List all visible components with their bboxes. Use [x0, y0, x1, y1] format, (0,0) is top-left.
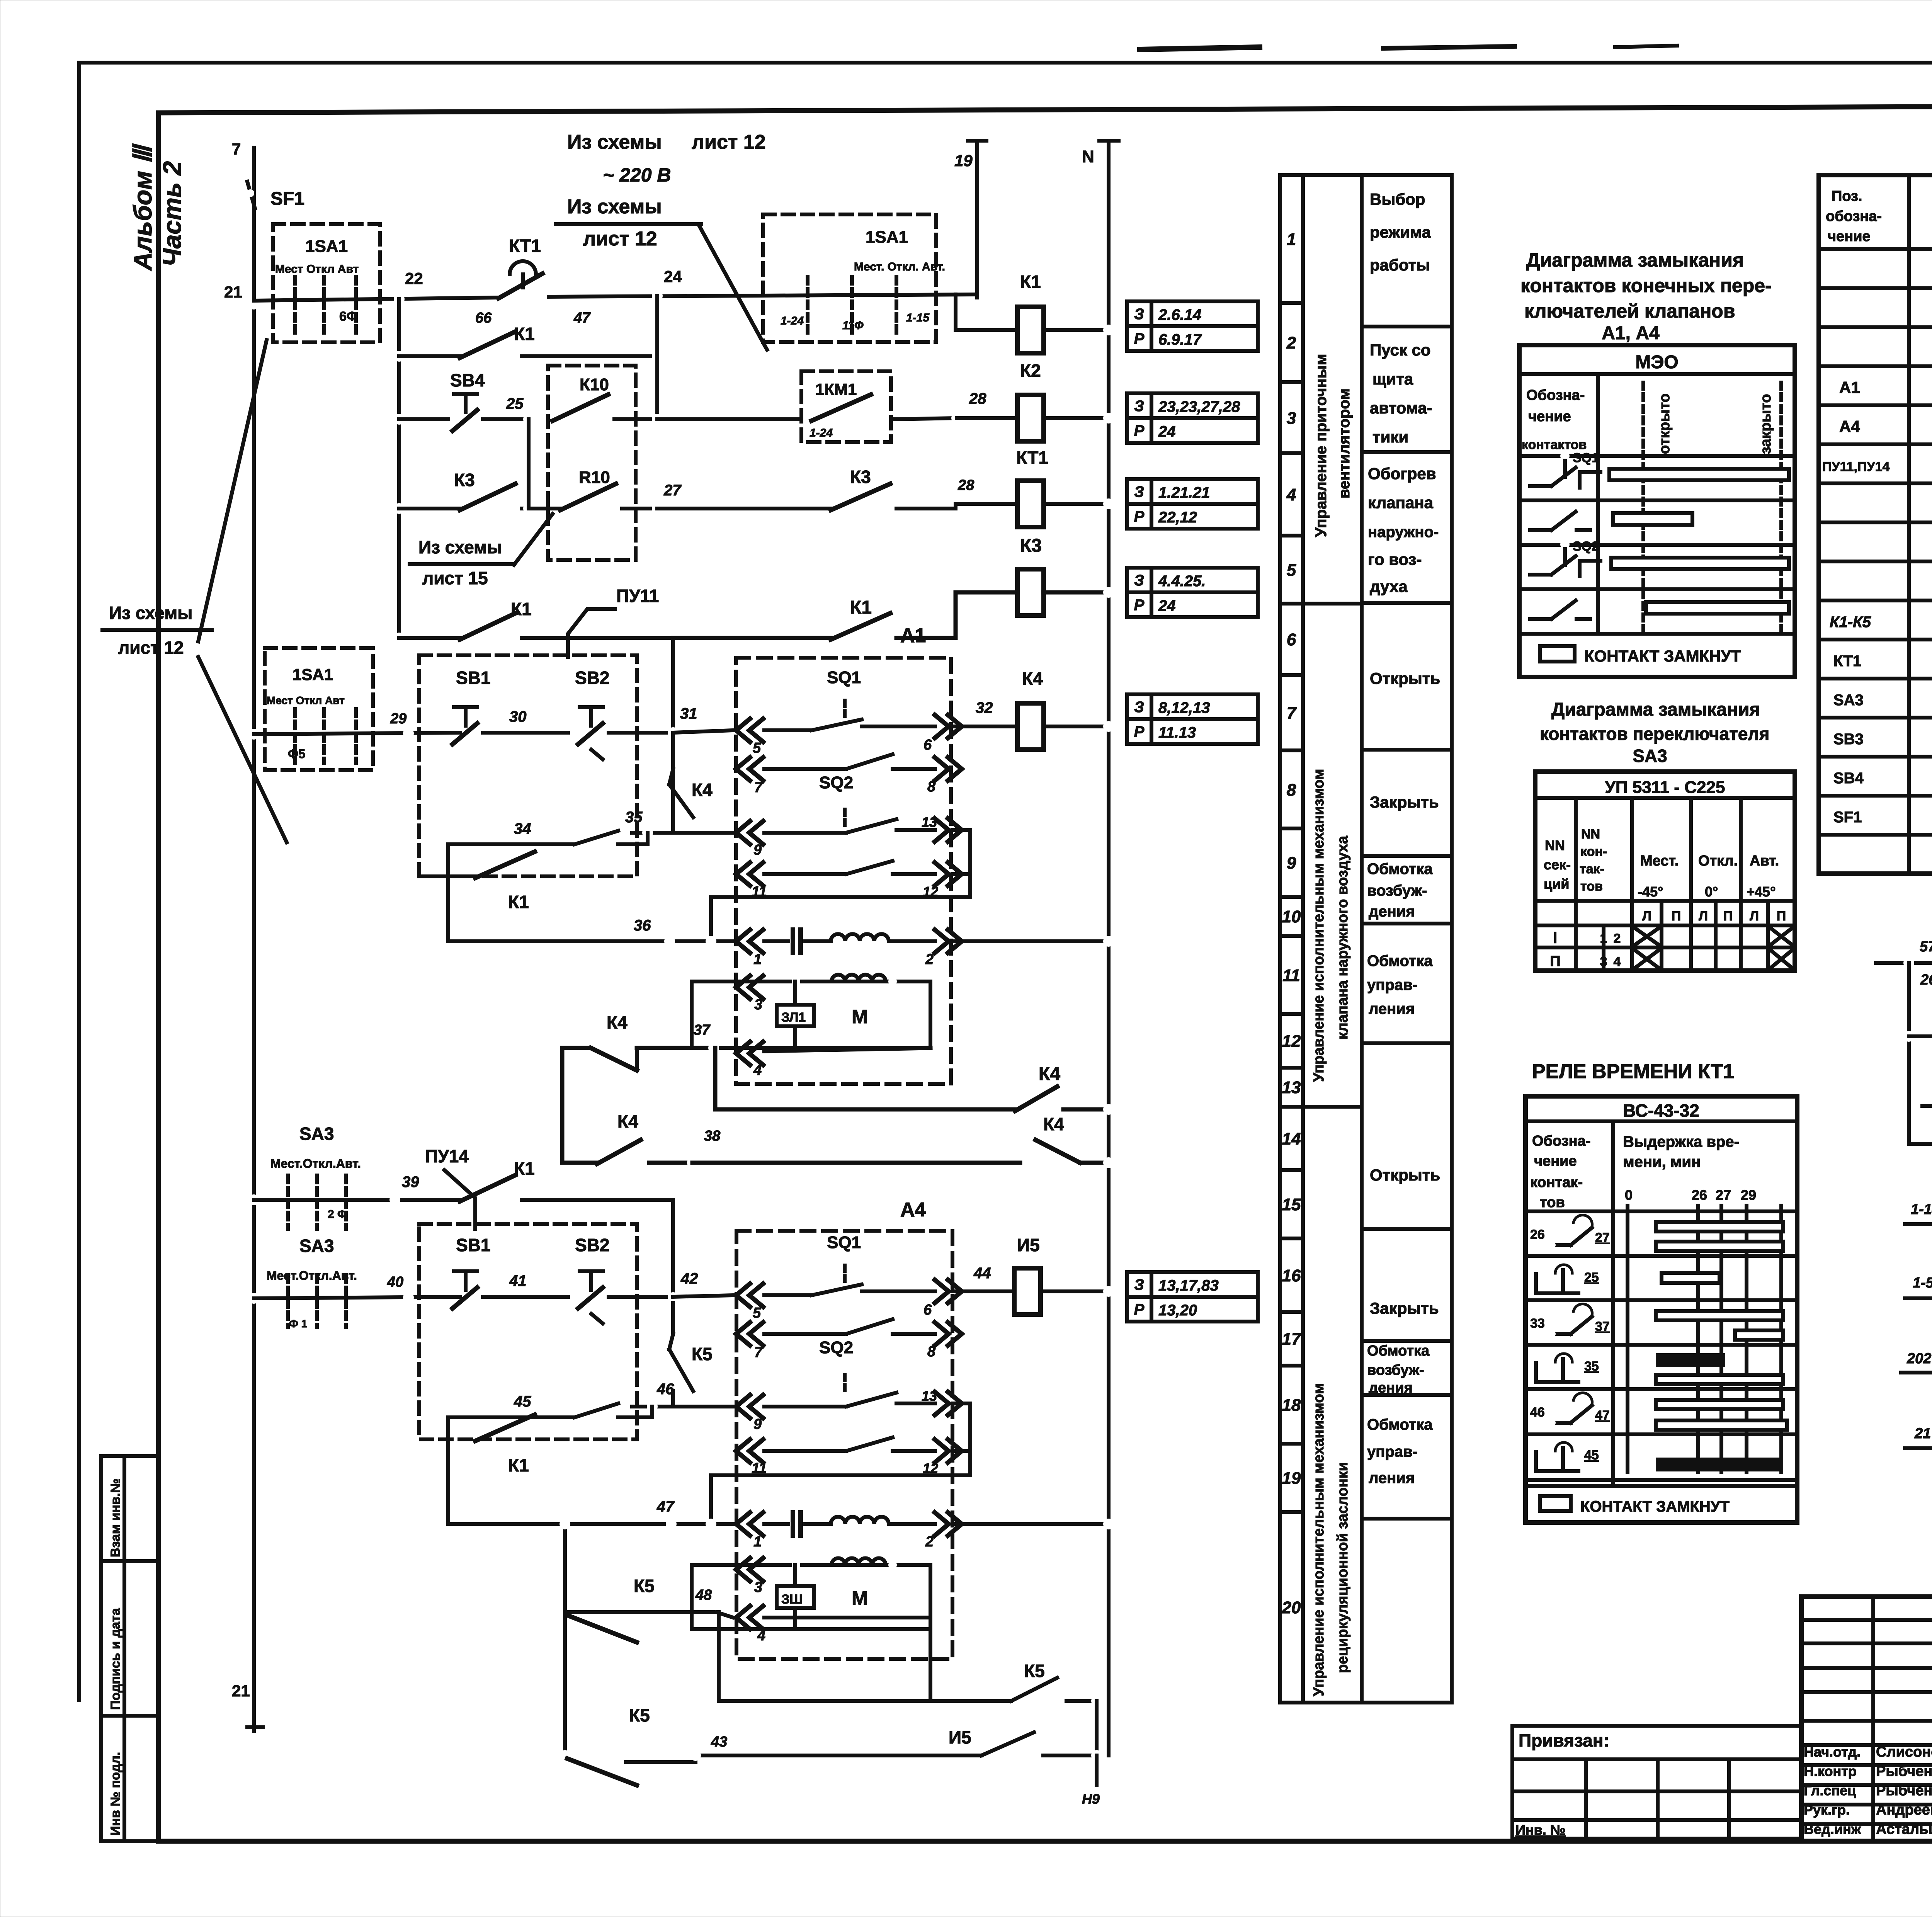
svg-text:1-24: 1-24 [781, 315, 804, 327]
svg-text:К5: К5 [692, 1344, 713, 1364]
svg-text:К2: К2 [1020, 361, 1041, 381]
svg-text:П: П [1723, 909, 1733, 924]
svg-text:25: 25 [506, 395, 524, 412]
svg-text:Подпись и дата: Подпись и дата [108, 1607, 123, 1710]
svg-text:дения: дения [1369, 1380, 1413, 1396]
svg-text:33: 33 [1530, 1316, 1545, 1331]
svg-text:З: З [1134, 1276, 1144, 1293]
svg-text:лист 15: лист 15 [422, 568, 488, 588]
svg-text:Альбом Ⅲ: Альбом Ⅲ [128, 143, 157, 271]
svg-text:ЗШ: ЗШ [781, 1592, 803, 1607]
svg-text:1-5: 1-5 [1913, 1275, 1932, 1291]
svg-text:З: З [1134, 398, 1144, 415]
svg-text:7: 7 [1287, 704, 1297, 723]
svg-text:Инв № подл.: Инв № подл. [108, 1752, 123, 1835]
svg-text:Откл.: Откл. [1698, 853, 1738, 869]
svg-text:SQ1: SQ1 [827, 1233, 861, 1252]
svg-text:тики: тики [1372, 428, 1408, 446]
svg-text:так-: так- [1580, 862, 1604, 876]
svg-text:SB4: SB4 [1833, 770, 1864, 787]
svg-text:Л: Л [1750, 909, 1759, 924]
svg-text:А4: А4 [1839, 417, 1860, 435]
svg-text:3: 3 [754, 997, 762, 1013]
svg-text:24: 24 [1158, 423, 1176, 440]
svg-text:Обмотка: Обмотка [1367, 1416, 1433, 1433]
svg-text:ления: ления [1369, 1470, 1415, 1487]
svg-text:ЗЛ1: ЗЛ1 [781, 1010, 806, 1025]
svg-text:13: 13 [922, 814, 937, 830]
svg-text:К10: К10 [580, 375, 609, 394]
svg-text:43: 43 [711, 1734, 727, 1750]
svg-text:11: 11 [1282, 966, 1300, 985]
svg-text:ПУ14: ПУ14 [425, 1146, 469, 1166]
svg-text:тов: тов [1540, 1194, 1565, 1211]
svg-text:SB1: SB1 [456, 668, 490, 688]
svg-text:К1: К1 [508, 1455, 529, 1475]
svg-text:Мест Откл Авт: Мест Откл Авт [275, 263, 359, 276]
svg-text:9: 9 [1287, 854, 1296, 873]
svg-text:31: 31 [680, 705, 697, 722]
svg-text:дения: дения [1369, 903, 1415, 920]
svg-text:SQ2: SQ2 [1573, 539, 1599, 554]
svg-text:К5: К5 [634, 1576, 655, 1596]
svg-text:6: 6 [923, 737, 932, 753]
svg-text:38: 38 [704, 1128, 721, 1144]
svg-text:К3: К3 [1020, 536, 1042, 556]
svg-text:контактов переключателя: контактов переключателя [1540, 724, 1769, 744]
svg-text:SQ2: SQ2 [819, 1338, 853, 1357]
svg-text:рециркуляционной заслонки: рециркуляционной заслонки [1335, 1462, 1351, 1673]
svg-text:1: 1 [1287, 230, 1296, 249]
svg-text:Управление исполнительным меха: Управление исполнительным механизмом [1311, 1383, 1327, 1696]
svg-text:18: 18 [1282, 1396, 1301, 1415]
svg-text:З: З [1134, 699, 1144, 716]
svg-text:Обмотка: Обмотка [1367, 1343, 1430, 1359]
svg-text:Астальцева: Астальцева [1876, 1821, 1932, 1837]
svg-text:202: 202 [1906, 1351, 1931, 1367]
svg-text:4: 4 [757, 1628, 765, 1644]
svg-text:6: 6 [923, 1302, 932, 1318]
svg-text:1КМ1: 1КМ1 [815, 380, 857, 398]
svg-text:47: 47 [573, 310, 591, 326]
svg-text:2: 2 [925, 1534, 934, 1550]
svg-text:сек-: сек- [1544, 857, 1571, 873]
svg-text:1-15: 1-15 [906, 311, 930, 324]
svg-text:SB1: SB1 [456, 1235, 490, 1255]
svg-text:SA3: SA3 [299, 1124, 334, 1144]
svg-text:Андреева: Андреева [1876, 1802, 1932, 1818]
svg-text:К4: К4 [617, 1111, 638, 1131]
svg-text:1SA1: 1SA1 [293, 665, 333, 684]
svg-text:Л: Л [1699, 909, 1708, 924]
svg-text:автома-: автома- [1370, 399, 1432, 417]
svg-text:Часть 2: Часть 2 [158, 161, 186, 267]
svg-text:8,12,13: 8,12,13 [1158, 699, 1210, 716]
svg-text:SQ1: SQ1 [827, 668, 861, 687]
svg-text:тов: тов [1580, 879, 1603, 894]
svg-text:45: 45 [514, 1393, 531, 1410]
svg-text:Взам инв.№: Взам инв.№ [108, 1478, 123, 1557]
svg-text:Из схемы: Из схемы [109, 603, 192, 623]
svg-text:К1: К1 [514, 1158, 535, 1179]
svg-text:работы: работы [1370, 256, 1430, 274]
svg-text:21: 21 [1914, 1425, 1931, 1442]
svg-text:Диаграмма замыкания: Диаграмма замыкания [1551, 699, 1760, 720]
svg-text:Н9: Н9 [1082, 1791, 1100, 1807]
svg-text:Ⅰ: Ⅰ [1553, 930, 1557, 946]
svg-text:2 Ф: 2 Ф [328, 1208, 347, 1221]
svg-text:7: 7 [754, 1344, 763, 1361]
svg-text:Обмотка: Обмотка [1367, 861, 1433, 878]
svg-text:13,20: 13,20 [1158, 1302, 1197, 1319]
svg-text:Л: Л [1642, 909, 1651, 924]
svg-text:П: П [1672, 909, 1681, 924]
svg-text:29: 29 [1741, 1187, 1756, 1203]
svg-text:NN: NN [1581, 827, 1600, 842]
svg-text:КОНТАКТ ЗАМКНУТ: КОНТАКТ ЗАМКНУТ [1584, 647, 1741, 665]
svg-text:контактов: контактов [1522, 437, 1587, 452]
svg-text:Закрыть: Закрыть [1370, 793, 1439, 811]
svg-text:наружно-: наружно- [1368, 524, 1439, 541]
svg-text:NN: NN [1545, 837, 1565, 853]
svg-text:А1, А4: А1, А4 [1602, 323, 1660, 344]
svg-text:Обмотка: Обмотка [1367, 953, 1433, 970]
svg-text:47: 47 [1595, 1408, 1610, 1423]
svg-text:контак-: контак- [1530, 1174, 1583, 1191]
svg-text:К1: К1 [514, 324, 535, 344]
svg-text:3: 3 [754, 1579, 762, 1596]
svg-text:К1: К1 [850, 597, 872, 618]
svg-text:6Ф: 6Ф [339, 309, 358, 324]
svg-text:6.9.17: 6.9.17 [1158, 331, 1202, 348]
svg-text:20: 20 [1282, 1598, 1301, 1617]
svg-text:28: 28 [957, 477, 975, 493]
svg-text:36: 36 [634, 917, 651, 934]
svg-text:З: З [1134, 483, 1144, 500]
svg-text:ления: ления [1369, 1000, 1415, 1017]
svg-text:ключателей клапанов: ключателей клапанов [1524, 300, 1735, 322]
svg-text:Закрыть: Закрыть [1370, 1299, 1439, 1317]
svg-text:Р: Р [1134, 508, 1145, 525]
svg-text:И5: И5 [1017, 1235, 1040, 1255]
svg-text:кон-: кон- [1580, 844, 1607, 859]
svg-text:1.21.21: 1.21.21 [1158, 484, 1210, 501]
svg-text:К4: К4 [1022, 668, 1043, 689]
svg-text:24: 24 [1158, 597, 1176, 614]
svg-text:8: 8 [927, 1344, 936, 1360]
svg-text:13,17,83: 13,17,83 [1158, 1277, 1219, 1294]
svg-text:17: 17 [1282, 1330, 1302, 1349]
svg-text:SF1: SF1 [270, 189, 304, 209]
svg-text:24: 24 [664, 267, 682, 286]
svg-text:14: 14 [1282, 1129, 1301, 1148]
svg-text:27: 27 [1716, 1187, 1731, 1203]
svg-text:4.4.25.: 4.4.25. [1158, 573, 1206, 590]
svg-text:клапана: клапана [1368, 493, 1434, 512]
svg-text:ПУ11,ПУ14: ПУ11,ПУ14 [1822, 459, 1889, 474]
svg-text:9: 9 [753, 842, 762, 858]
svg-text:1-14: 1-14 [1911, 1201, 1932, 1218]
svg-text:11Ф: 11Ф [842, 319, 864, 332]
svg-text:щита: щита [1372, 370, 1413, 388]
svg-text:1: 1 [753, 951, 762, 968]
svg-text:ВС-43-32: ВС-43-32 [1623, 1101, 1699, 1121]
svg-text:К5: К5 [629, 1705, 650, 1725]
svg-text:К4: К4 [1039, 1064, 1060, 1084]
svg-text:SA3: SA3 [1633, 746, 1667, 766]
svg-text:12: 12 [1282, 1032, 1301, 1051]
svg-text:34: 34 [514, 820, 531, 837]
svg-text:0°: 0° [1705, 884, 1718, 900]
svg-text:21: 21 [224, 283, 242, 301]
svg-text:26: 26 [1692, 1187, 1707, 1203]
svg-text:Мест.Откл.Авт.: Мест.Откл.Авт. [267, 1269, 357, 1283]
svg-text:К1: К1 [508, 892, 529, 912]
svg-text:11.13: 11.13 [1158, 724, 1196, 741]
svg-text:22: 22 [405, 269, 423, 287]
svg-text:3: 3 [1287, 409, 1296, 428]
svg-text:закрыто: закрыто [1758, 394, 1774, 454]
svg-text:режима: режима [1370, 223, 1431, 241]
svg-text:УП 5311 - С225: УП 5311 - С225 [1605, 778, 1725, 797]
svg-text:SB4: SB4 [450, 370, 485, 390]
svg-text:SQ2: SQ2 [819, 773, 853, 792]
svg-text:SB3: SB3 [1833, 731, 1864, 748]
svg-text:Пуск со: Пуск со [1370, 341, 1431, 359]
svg-text:27: 27 [663, 482, 682, 499]
svg-text:SB2: SB2 [575, 1235, 609, 1255]
svg-text:К1: К1 [1020, 272, 1041, 292]
svg-text:SA3: SA3 [1833, 692, 1864, 709]
svg-text:И5: И5 [949, 1727, 971, 1747]
svg-text:Привязан:: Привязан: [1519, 1730, 1609, 1750]
svg-text:45: 45 [1584, 1448, 1599, 1463]
svg-text:39: 39 [402, 1174, 419, 1191]
svg-text:Р: Р [1134, 330, 1145, 347]
svg-text:7: 7 [232, 140, 241, 158]
svg-text:КТ1: КТ1 [509, 236, 541, 256]
svg-text:SQ1: SQ1 [1573, 451, 1599, 465]
svg-text:Р: Р [1134, 597, 1145, 614]
svg-text:Мест.: Мест. [1640, 853, 1679, 869]
svg-text:К1: К1 [511, 599, 532, 619]
svg-text:26: 26 [1530, 1227, 1545, 1242]
svg-text:РЕЛЕ ВРЕМЕНИ КТ1: РЕЛЕ ВРЕМЕНИ КТ1 [1532, 1060, 1734, 1083]
svg-text:19: 19 [1282, 1469, 1301, 1488]
svg-text:Р: Р [1134, 422, 1145, 439]
svg-text:КОНТАКТ ЗАМКНУТ: КОНТАКТ ЗАМКНУТ [1580, 1498, 1730, 1515]
svg-text:Обозна-: Обозна- [1532, 1133, 1590, 1149]
svg-text:Из схемы: Из схемы [418, 537, 502, 557]
svg-text:К4: К4 [1043, 1114, 1064, 1134]
svg-text:МЭО: МЭО [1635, 352, 1678, 373]
svg-text:37: 37 [694, 1022, 711, 1038]
svg-text:23,23,27,28: 23,23,27,28 [1158, 398, 1240, 415]
svg-text:Гл.спец: Гл.спец [1804, 1783, 1856, 1798]
svg-text:М: М [852, 1006, 868, 1027]
svg-text:лист 12: лист 12 [583, 228, 657, 250]
svg-text:30: 30 [509, 708, 527, 725]
svg-text:21: 21 [232, 1682, 250, 1700]
svg-text:чение: чение [1828, 228, 1871, 245]
svg-text:R10: R10 [579, 468, 610, 487]
svg-text:Ф 1: Ф 1 [289, 1318, 307, 1330]
svg-text:19: 19 [954, 151, 973, 170]
svg-text:4: 4 [1286, 485, 1296, 504]
svg-text:Мест Откл Авт: Мест Откл Авт [267, 694, 345, 706]
svg-text:Ф5: Ф5 [288, 747, 305, 761]
svg-text:5: 5 [1287, 561, 1296, 580]
svg-text:открыто: открыто [1656, 393, 1673, 454]
svg-text:44: 44 [973, 1265, 991, 1282]
svg-text:чение: чение [1534, 1153, 1577, 1169]
svg-text:Вед.инж: Вед.инж [1804, 1821, 1861, 1837]
svg-text:К4: К4 [692, 780, 713, 800]
svg-text:П: П [1550, 953, 1560, 970]
svg-text:Поз.: Поз. [1832, 188, 1862, 204]
svg-text:32: 32 [976, 699, 993, 716]
svg-text:28: 28 [969, 390, 986, 407]
svg-text:П: П [1777, 909, 1786, 924]
svg-text:Рыбченко: Рыбченко [1876, 1763, 1932, 1779]
svg-text:Слисонов: Слисонов [1876, 1744, 1932, 1760]
svg-text:48: 48 [695, 1587, 712, 1603]
svg-text:4: 4 [753, 1062, 762, 1078]
svg-text:SA3: SA3 [299, 1236, 334, 1256]
svg-text:З: З [1134, 306, 1144, 323]
svg-text:Обогрев: Обогрев [1368, 464, 1436, 483]
svg-text:возбуж-: возбуж- [1367, 882, 1427, 899]
svg-text:13: 13 [922, 1388, 937, 1404]
svg-text:16: 16 [1282, 1266, 1301, 1285]
svg-text:47: 47 [656, 1498, 675, 1515]
svg-text:Управление приточным: Управление приточным [1313, 354, 1330, 537]
svg-text:Диаграмма замыкания: Диаграмма замыкания [1526, 249, 1744, 271]
svg-text:Р: Р [1134, 723, 1145, 740]
svg-text:Выдержка вре-: Выдержка вре- [1623, 1133, 1739, 1150]
svg-text:7: 7 [754, 779, 763, 796]
svg-text:4: 4 [1614, 954, 1621, 969]
svg-text:15: 15 [1282, 1195, 1301, 1214]
svg-text:мени, мин: мени, мин [1623, 1153, 1701, 1170]
svg-text:2: 2 [1286, 333, 1296, 352]
svg-text:Рук.гр.: Рук.гр. [1804, 1802, 1850, 1818]
svg-text:22,12: 22,12 [1158, 509, 1197, 526]
svg-text:Мест.Откл.Авт.: Мест.Откл.Авт. [270, 1157, 361, 1170]
svg-text:ций: ций [1544, 876, 1569, 892]
svg-text:клапана наружного воздуха: клапана наружного воздуха [1335, 835, 1351, 1039]
svg-text:42: 42 [680, 1270, 698, 1287]
svg-text:А1: А1 [900, 624, 926, 647]
svg-text:обозна-: обозна- [1826, 208, 1882, 225]
svg-text:5: 5 [753, 1305, 761, 1321]
svg-text:2.6.14: 2.6.14 [1158, 306, 1201, 323]
svg-text:1SA1: 1SA1 [866, 228, 908, 247]
svg-text:Из схемы: Из схемы [567, 131, 662, 153]
svg-text:27: 27 [1595, 1230, 1610, 1245]
svg-text:46: 46 [1530, 1405, 1545, 1420]
svg-text:Р: Р [1134, 1301, 1145, 1318]
svg-text:29: 29 [390, 711, 406, 727]
svg-text:8: 8 [1287, 781, 1296, 799]
svg-text:К3: К3 [850, 467, 871, 487]
svg-text:2: 2 [1614, 931, 1621, 946]
svg-text:КТ1: КТ1 [1833, 653, 1861, 670]
svg-text:М: М [852, 1587, 868, 1609]
svg-text:~ 220 В: ~ 220 В [603, 164, 671, 186]
svg-text:А4: А4 [900, 1199, 926, 1221]
svg-text:35: 35 [625, 809, 643, 826]
svg-text:А1: А1 [1839, 378, 1860, 396]
svg-text:Обозна-: Обозна- [1526, 387, 1585, 403]
svg-text:2: 2 [925, 951, 934, 968]
svg-text:25: 25 [1584, 1270, 1599, 1285]
svg-text:SB2: SB2 [575, 668, 609, 688]
svg-text:Открыть: Открыть [1370, 1166, 1440, 1184]
svg-text:З: З [1134, 572, 1144, 589]
svg-text:контактов конечных пере-: контактов конечных пере- [1520, 275, 1772, 296]
svg-text:13: 13 [1282, 1078, 1301, 1097]
svg-text:Инв. №: Инв. № [1515, 1822, 1566, 1838]
svg-text:9: 9 [753, 1416, 762, 1432]
svg-text:SF1: SF1 [1833, 809, 1862, 826]
svg-text:К1-К5: К1-К5 [1830, 614, 1871, 631]
svg-text:5: 5 [753, 740, 761, 756]
svg-text:40: 40 [387, 1274, 403, 1290]
svg-text:Авт.: Авт. [1750, 853, 1779, 869]
svg-text:57: 57 [1920, 939, 1932, 955]
svg-text:0: 0 [1625, 1187, 1633, 1203]
svg-text:1: 1 [753, 1534, 762, 1550]
svg-text:К5: К5 [1024, 1661, 1045, 1681]
svg-text:управ-: управ- [1367, 1443, 1418, 1460]
svg-text:46: 46 [656, 1381, 674, 1398]
svg-text:+45°: +45° [1747, 884, 1776, 900]
svg-text:вентилятором: вентилятором [1336, 388, 1353, 498]
svg-text:КТ1: КТ1 [1016, 447, 1048, 468]
svg-text:Из схемы: Из схемы [567, 196, 662, 218]
svg-text:Нач.отд.: Нач.отд. [1804, 1744, 1861, 1760]
svg-text:Управление исполнительным меха: Управление исполнительным механизмом [1311, 769, 1327, 1082]
svg-text:духа: духа [1370, 577, 1408, 595]
svg-text:лист 12: лист 12 [692, 131, 766, 153]
svg-text:N: N [1082, 147, 1094, 166]
svg-text:35: 35 [1584, 1359, 1599, 1374]
svg-text:Открыть: Открыть [1370, 669, 1440, 687]
svg-text:лист 12: лист 12 [118, 638, 184, 658]
svg-text:чение: чение [1528, 408, 1571, 425]
svg-text:К4: К4 [607, 1012, 628, 1032]
svg-text:66: 66 [475, 310, 492, 326]
svg-text:26: 26 [1920, 972, 1932, 988]
svg-text:К3: К3 [454, 470, 475, 490]
svg-text:го воз-: го воз- [1368, 550, 1422, 568]
svg-text:Н.контр: Н.контр [1804, 1763, 1857, 1779]
svg-text:управ-: управ- [1367, 976, 1418, 993]
svg-text:ПУ11: ПУ11 [616, 586, 659, 606]
svg-text:-45°: -45° [1638, 884, 1663, 900]
svg-text:возбуж-: возбуж- [1367, 1362, 1424, 1378]
svg-text:10: 10 [1282, 907, 1301, 926]
svg-text:6: 6 [1287, 630, 1296, 649]
svg-text:1SA1: 1SA1 [305, 237, 348, 256]
svg-text:8: 8 [927, 779, 936, 795]
svg-text:Выбор: Выбор [1370, 190, 1425, 208]
svg-text:41: 41 [509, 1272, 527, 1289]
svg-text:37: 37 [1595, 1319, 1610, 1334]
svg-text:Рыбченко: Рыбченко [1876, 1783, 1932, 1799]
svg-text:1-24: 1-24 [810, 427, 833, 439]
